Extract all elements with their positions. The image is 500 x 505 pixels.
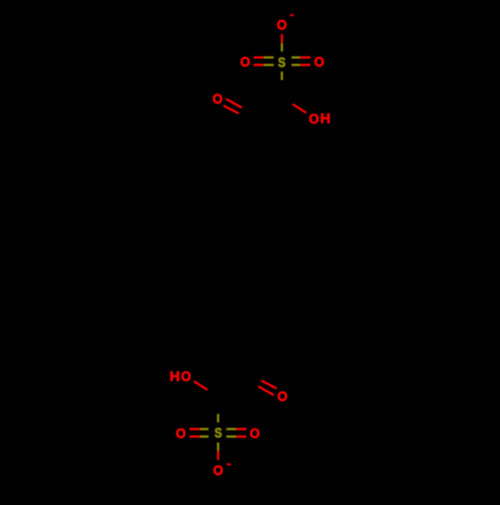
wire double bond S1=O3 line1 sulfur half xyxy=(292,56,301,58)
wire double bond S2=O9 line2 oxygen half xyxy=(236,435,246,437)
wire double bond C2=O4 line2 oxygen half xyxy=(224,106,238,113)
wire double bond S1=O3 line1 oxygen half xyxy=(300,56,310,58)
svg-text:S: S xyxy=(214,424,222,440)
svg-text:O: O xyxy=(213,462,223,478)
svg-text:O: O xyxy=(176,425,186,441)
wire bond S1-O1 oxygen half xyxy=(281,34,283,43)
wire double bond S2=O9 line1 sulfur half xyxy=(226,428,236,430)
node O10- charge minus sign xyxy=(227,463,231,465)
wire bond S2-O10 oxygen half xyxy=(217,451,219,460)
svg-text:O: O xyxy=(309,111,319,127)
node O1- charge minus sign xyxy=(290,14,294,16)
svg-text:S: S xyxy=(278,54,286,70)
wire bond S2-O10 sulfur half xyxy=(217,442,219,451)
wire bond S1-O1 sulfur half xyxy=(281,43,283,52)
wire double bond S1=O2 line2 oxygen half xyxy=(254,64,264,66)
wire double bond S2=O9 line1 oxygen half xyxy=(236,428,246,430)
wire double bond S1=O3 line2 oxygen half xyxy=(300,64,310,66)
wire double bond C7=O7 line1 oxygen half xyxy=(259,387,273,395)
wire bond C1-O5 oxygen half xyxy=(293,105,305,113)
wire bond S1-C1 sulfur half xyxy=(281,72,283,81)
wire double bond S2=O8 line1 oxygen half xyxy=(190,428,200,430)
svg-text:O: O xyxy=(277,17,287,33)
svg-text:H: H xyxy=(170,368,180,384)
wire double bond S2=O8 line2 oxygen half xyxy=(190,435,200,437)
svg-text:O: O xyxy=(213,91,223,107)
svg-text:O: O xyxy=(181,369,191,385)
svg-text:O: O xyxy=(277,388,287,404)
wire double bond S2=O8 line1 sulfur half xyxy=(200,428,209,430)
wire double bond C7=O7 line2 oxygen half xyxy=(262,381,276,388)
wire bond S2-C8 sulfur half xyxy=(217,414,219,423)
wire bond C8-O6 oxygen half xyxy=(195,382,207,390)
wire double bond S2=O9 line2 sulfur half xyxy=(226,435,236,437)
wire double bond C2=O4 line1 oxygen half xyxy=(227,99,241,107)
wire double bond S1=O3 line2 sulfur half xyxy=(292,64,301,66)
wire double bond S1=O2 line1 sulfur half xyxy=(264,56,274,58)
svg-text:O: O xyxy=(314,54,324,70)
svg-text:O: O xyxy=(250,425,260,441)
wire double bond S2=O8 line2 sulfur half xyxy=(200,435,209,437)
svg-text:O: O xyxy=(240,54,250,70)
wire double bond S1=O2 line1 oxygen half xyxy=(254,56,264,58)
svg-text:H: H xyxy=(320,110,330,126)
wire double bond S1=O2 line2 sulfur half xyxy=(264,64,274,66)
